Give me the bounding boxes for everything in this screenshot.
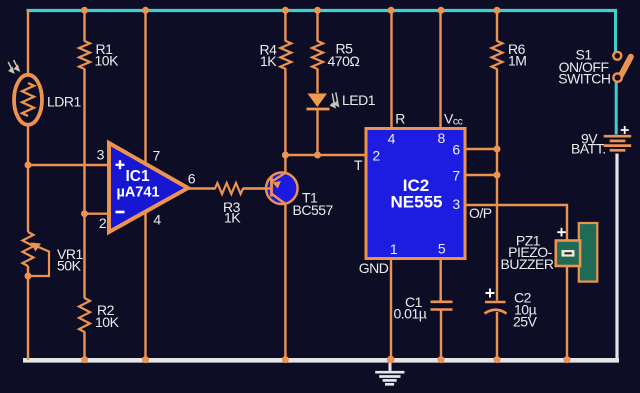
wire R2 to bottom rail [83,332,85,361]
svg-text:3: 3 [452,196,460,212]
svg-text:O/P: O/P [469,205,492,221]
op-amp IC1 [109,143,188,232]
wire node A down to VR1 [27,165,29,232]
svg-text:SWITCH: SWITCH [558,71,610,87]
junction node A [25,162,32,169]
wire top rail to IC2 pin 4 [390,10,392,129]
LDR1 light arrows [8,60,19,73]
wire LED1 cathode to node T [316,110,318,155]
svg-text:NE555: NE555 [391,193,443,212]
wire VR1 bottom to bottom rail [27,266,29,360]
svg-text:6: 6 [452,142,460,158]
LED1 emission arrows [331,92,339,107]
junction bottom rail R2 [81,356,88,363]
svg-text:LED1: LED1 [342,92,376,108]
junction pin6 node [494,146,501,153]
wire R6 to pin6/pin7 node [496,69,498,150]
capacitor C2 (electrolytic) [485,302,507,314]
wire C2 to bottom rail [496,312,498,360]
svg-text:2: 2 [99,215,107,231]
svg-text:0.01µ: 0.01µ [394,306,427,322]
battery plus sign [621,126,629,134]
battery BATT 9V [604,136,632,150]
wire node T to T1 emitter [284,155,286,174]
switch S1 [613,52,631,82]
piezo buzzer PZ1 [556,223,598,282]
resistor R4 [280,41,291,69]
wire cyan down to switch [614,9,617,52]
wire node pin2 to op-amp pin 2 [85,212,110,214]
C2 plus sign [486,289,495,298]
svg-text:LDR1: LDR1 [47,93,82,109]
resistor R6 [492,41,503,69]
capacitor C1 [431,302,453,310]
junction top rail R5 [314,7,321,14]
svg-text:10K: 10K [95,314,120,330]
svg-text:3: 3 [97,147,105,163]
svg-text:BC557: BC557 [293,202,334,218]
junction top rail pin7 column [142,7,149,14]
svg-text:7: 7 [153,148,161,164]
wire node A to op-amp pin 3 [28,164,109,166]
svg-text:BATT.: BATT. [571,140,606,156]
wire C1 to bottom rail [440,310,442,361]
wire IC2 pin 7 stub [465,174,497,176]
wire top rail to R6 [496,10,498,42]
svg-text:1K: 1K [224,210,241,226]
svg-text:25V: 25V [513,314,538,330]
wire left column top to LDR [27,10,29,77]
svg-text:6: 6 [188,171,196,187]
junction top rail R1 [81,7,88,14]
svg-text:5: 5 [438,241,446,257]
wire battery negative to bottom rail (white) [615,154,618,361]
buzzer plus sign [557,228,566,237]
svg-text:470Ω: 470Ω [328,53,360,69]
svg-text:8: 8 [438,130,446,146]
potentiometer VR1 [23,232,50,276]
resistor R5 [312,41,323,69]
svg-text:10K: 10K [95,53,120,69]
wire cyan switch to battery [615,82,618,135]
wire op-amp output to R3 [187,187,216,189]
wire IC2 pin 3 output to buzzer [465,205,567,241]
wire IC2 pin 6 stub [465,148,497,150]
IC2 NE555 body [366,129,465,259]
junction top rail pin4 [388,7,395,14]
wire top rail to IC2 pin 8 [439,10,441,129]
resistor R3 [215,183,243,194]
node +V top rail (cyan) [27,9,617,12]
svg-text:7: 7 [452,168,460,184]
svg-text:2: 2 [372,148,380,164]
svg-text:R: R [395,110,405,126]
wire top rail to R1 [83,10,85,42]
svg-text:µA741: µA741 [116,185,159,201]
junction bottom rail C1 [438,356,445,363]
wire top rail to R5 [316,10,318,42]
junction node T at R4 [282,152,289,159]
wire R3 to T1 base [243,187,271,189]
wire LDR to node A [27,124,29,164]
LED1 [307,94,330,110]
wire T1 collector to bottom rail [284,203,286,360]
junction bottom rail C2 [494,356,501,363]
wire R4 to node T [284,69,286,156]
node 0V bottom rail (white) [23,358,619,363]
wire top rail to R4 [284,10,286,42]
svg-text:4: 4 [388,131,396,147]
wire node T to IC2 pin 2 [285,154,366,156]
resistor R1 [79,41,90,69]
junction node T at LED [314,152,321,159]
svg-text:4: 4 [153,212,161,228]
svg-text:50K: 50K [57,258,82,274]
resistor R2 [79,298,90,332]
junction pin7 node [494,172,501,179]
junction top rail R6 [494,7,501,14]
svg-text:T: T [354,157,363,173]
wire buzzer to bottom rail [566,266,568,361]
wire pin7/pin4 column [144,10,146,361]
wire R1 to R2 through pin2 node [83,69,85,299]
svg-text:1M: 1M [508,53,526,69]
junction bottom rail T1 [282,356,289,363]
wire IC2 pin 1 to bottom rail [390,258,392,360]
junction bottom rail ground [387,356,395,364]
LDR1 photoresistor [14,75,42,125]
svg-text:GND: GND [359,260,389,276]
junction top rail pin8 [438,7,445,14]
svg-text:1K: 1K [260,53,277,69]
svg-text:1: 1 [390,241,398,257]
wire IC2 pin 5 to C1 [440,258,442,301]
junction bottom rail pin4 column [142,356,149,363]
ground symbol [375,359,404,384]
junction pin2 node [81,210,88,217]
junction top rail R4 [282,7,289,14]
svg-text:BUZZER: BUZZER [501,256,554,272]
transistor T1 [243,173,298,205]
junction bottom rail buzzer [564,356,571,363]
junction VR1 bottom [25,273,32,280]
svg-text:IC1: IC1 [125,168,150,185]
wire R5 to LED1 anode [316,69,318,94]
wire pin6 node to C2 [496,149,498,301]
